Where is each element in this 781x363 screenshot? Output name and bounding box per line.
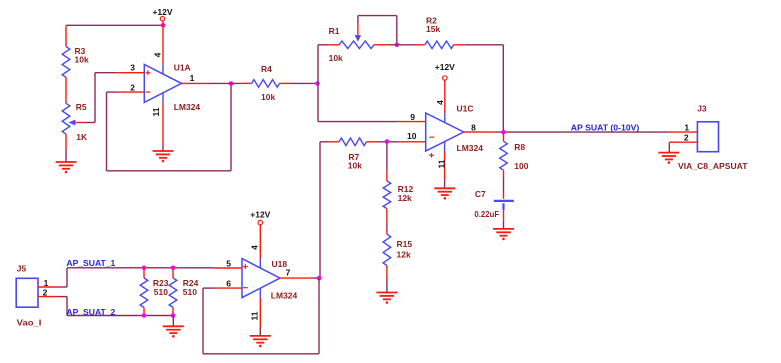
U1C pin 9 [398,121,426,123]
svg-text:4: 4 [152,52,162,57]
wire R12 to R15 [386,222,388,229]
connector J3 [697,122,718,152]
svg-text:R5: R5 [76,102,87,112]
wire R7 to pin10/R12 node [377,141,398,143]
svg-text:U1A: U1A [174,63,191,73]
svg-text:2: 2 [43,288,48,298]
ground below U1C pin 11 [434,188,455,195]
U1A pin 1 output [182,82,210,84]
resistor R15 [383,234,391,265]
svg-text:10k: 10k [261,92,275,102]
svg-text:12k: 12k [397,250,411,260]
svg-text:4: 4 [435,100,445,105]
wire U18 feedback loop [318,278,320,354]
svg-text:AP_SUAT_2: AP_SUAT_2 [66,307,115,317]
U1A pin 3 [116,72,144,74]
node U18 output junction [317,276,322,281]
U1C pin 11 [444,141,446,151]
power +12V (U1C supply) [443,76,447,80]
wire net AP_SUAT_1 [67,267,214,269]
J3 pin 1 [668,131,697,133]
wire R24 node to ground [172,316,174,326]
potentiometer R5 [62,103,70,134]
svg-text:+12V: +12V [152,7,172,17]
U1C pin 8 output [464,131,495,133]
svg-text:11: 11 [249,311,259,320]
svg-text:7: 7 [286,268,291,278]
wire U1C output node to J3 [495,131,668,133]
wire node A riser (R1 row down to U1C pin 9 row) [317,45,319,122]
ground below U18 pin 11 [250,336,271,343]
svg-text:R15: R15 [397,239,413,249]
wire U1C pin10 row / R7 branch [320,141,329,143]
resistor R24 [172,268,174,278]
wire R4 to node A [291,82,318,84]
wire +12V to R3 top [66,24,163,26]
svg-text:510: 510 [183,287,197,297]
svg-text:10k: 10k [348,160,362,170]
svg-text:2: 2 [130,83,135,93]
op-amp U1C [426,113,464,151]
node A (R4 / feedback riser) [315,81,320,86]
wire R12 top [386,142,388,172]
svg-text:10k: 10k [75,54,89,64]
wire C7 to ground [503,210,505,221]
wire U1A feedback loop [230,84,232,171]
svg-text:3: 3 [130,62,135,72]
ground below R5 [65,134,67,148]
resistor R4 [240,82,252,84]
resistor R3 [65,25,67,46]
J3 pin 2 [669,141,697,143]
node U1A output/feedback junction [229,81,234,86]
U1A pin 11 [162,93,164,103]
U1A pin 2 [116,91,144,93]
op-amp U1A [144,64,181,102]
wire J5 pin1 to AP_SUAT_1 [58,286,67,288]
svg-text:15k: 15k [426,24,440,34]
node AP_SUAT_2/R23 [142,313,147,318]
wire R5 wiper to U1A pin 3 [86,122,95,124]
power +12V (U18 supply) [258,220,262,224]
U18 pin 11 [259,288,261,297]
svg-text:10: 10 [407,131,417,141]
node AP_SUAT_2/R24/ground [171,313,176,318]
svg-text:+12V: +12V [435,62,455,72]
U18 pin 6 [214,287,242,289]
svg-text:9: 9 [410,112,415,122]
svg-text:510: 510 [154,287,168,297]
wire J3 pin 2 to ground [668,142,670,146]
ground below R15 [376,293,397,300]
svg-text:U1C: U1C [457,104,474,114]
U18 pin 5 [214,267,242,269]
capacitor C7 [494,200,514,202]
svg-text:100: 100 [514,161,528,171]
resistor R7 [329,141,340,143]
J5 pin 2 [38,296,58,298]
node R7/R12/pin10 junction [385,139,390,144]
svg-text:2: 2 [684,132,689,142]
node R1 wiper/output junction [395,43,400,48]
wire U1A output to R4 [210,82,240,84]
svg-text:1: 1 [684,123,689,133]
svg-text:VIA_C8_APSUAT: VIA_C8_APSUAT [678,161,748,171]
svg-text:4: 4 [250,245,260,250]
ground below J3 pin 2 [658,153,679,160]
wire +12V to U18 pin 4 [259,225,261,259]
ground below C7 [493,229,514,236]
wire R1 wiper loop [357,16,359,25]
svg-text:C7: C7 [475,189,486,199]
svg-text:11: 11 [151,107,161,116]
U18 pin 7 output [280,277,312,279]
wire U18 output to feedback riser [312,277,320,279]
resistor R2 [415,44,425,46]
svg-text:10k: 10k [329,53,343,63]
U1C pin 10 [398,141,426,143]
wire +12V down to U1A pin 4 [162,21,164,65]
node AP_SUAT_1/R23 [142,266,147,271]
svg-text:5: 5 [226,258,231,268]
svg-text:J3: J3 [697,104,707,114]
op-amp U18 [242,259,280,298]
wire net AP_SUAT_2 [67,315,173,317]
svg-text:LM324: LM324 [457,143,484,153]
node +12V/R3/U1A-pin4 junction [161,23,166,28]
resistor R12 [386,171,388,181]
svg-text:J5: J5 [17,264,27,274]
resistor R8 [503,132,505,141]
svg-text:LM324: LM324 [174,102,201,112]
J5 pin 1 [38,286,58,288]
wire +12V to U1C pin 4 [444,80,446,113]
svg-text:AP_SUAT_1: AP_SUAT_1 [66,258,115,268]
svg-text:1: 1 [44,278,49,288]
svg-text:AP SUAT (0-10V): AP SUAT (0-10V) [571,122,640,132]
wire R2 to output node [465,44,504,46]
ground below U1A pin 11 [153,151,174,158]
svg-text:0.22uF: 0.22uF [474,209,499,219]
svg-text:R8: R8 [514,142,525,152]
node AP_SUAT_1/R24 [171,266,176,271]
svg-text:11: 11 [436,159,446,168]
svg-text:LM324: LM324 [271,290,298,300]
wire J5 pin2 to AP_SUAT_2 [58,296,67,298]
ground below R24 [163,326,184,333]
svg-text:Vao_I: Vao_I [17,318,42,328]
potentiometer R1 [328,44,340,46]
power +12V (U1A supply) [160,17,164,21]
svg-text:1: 1 [190,73,195,83]
svg-text:+12V: +12V [250,210,270,220]
resistor R23 [143,268,145,278]
svg-text:R1: R1 [329,26,340,36]
wire R15 to ground [386,278,388,293]
wire R1 to R2 [389,44,416,46]
svg-text:12k: 12k [398,193,412,203]
node output junction (pin8/R2/R8/J3) [501,130,506,135]
svg-text:6: 6 [226,279,231,289]
connector J5 [16,278,38,307]
wire R8 to C7 [503,177,505,193]
svg-text:1K: 1K [76,132,88,142]
svg-text:R4: R4 [261,64,272,74]
svg-text:8: 8 [471,122,476,132]
